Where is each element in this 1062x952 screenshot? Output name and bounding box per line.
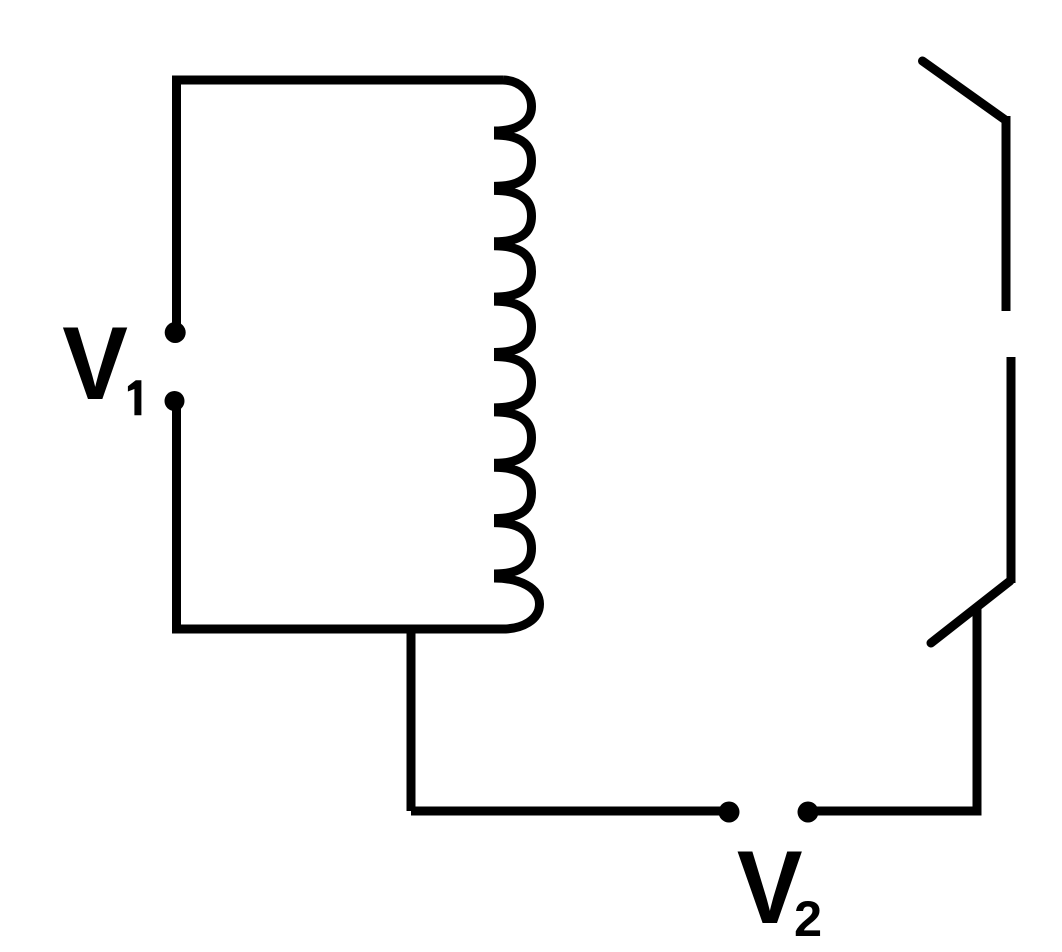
svg-text:2: 2 <box>794 890 822 947</box>
label V1 subscript 1 <box>128 380 141 415</box>
terminal dot: V2 left <box>719 802 740 823</box>
wire: left vertical lower lead (V1 lower terminal down to bottom-left corner) and bottom horizontal of primary loop <box>177 401 504 629</box>
wire: secondary loop top diagonal (near edge of one-turn loop) <box>923 61 1007 121</box>
svg-text:V: V <box>737 830 803 946</box>
wire: secondary loop bottom diagonal (crosses over lead wire) <box>931 581 1010 643</box>
wire: V2 right lead and right vertical up to loop crossover <box>808 609 977 811</box>
wire: drop from primary-loop bottom down to V2 left lead <box>407 629 416 811</box>
inductor coil (primary winding, 10 turns) <box>494 80 540 629</box>
wire: secondary loop right vertical, lower segment <box>1007 357 1016 583</box>
terminal dot: V1 upper <box>165 322 186 343</box>
terminal dot: V1 lower <box>165 391 185 411</box>
wire: V2 left lead (bottom horizontal to left terminal) <box>411 807 729 816</box>
wire: top-left loop upper lead (left vertical from top corner down to V1 upper terminal) <box>177 80 504 332</box>
wire: secondary loop right vertical, upper segment <box>1002 116 1011 311</box>
svg-text:V: V <box>62 306 128 422</box>
terminal dot: V2 right <box>798 802 819 823</box>
